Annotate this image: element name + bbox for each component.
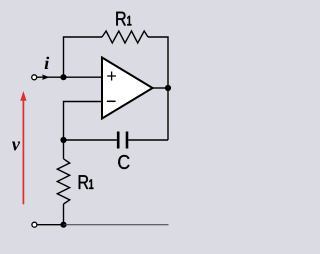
wire: resistor to bottom node bbox=[63, 204, 65, 225]
wire: inverting input from node B bbox=[64, 102, 103, 141]
label R1 (top resistor) bbox=[116, 12, 126, 26]
current arrow head bbox=[42, 75, 50, 80]
op-amp + symbol bbox=[107, 72, 116, 81]
resistor R1 (top, horizontal zigzag) bbox=[102, 31, 148, 43]
wire: feedback loop right side down to capacitor level bbox=[148, 37, 168, 140]
wire: capacitor to right vertical bbox=[128, 139, 168, 141]
node A junction dot bbox=[60, 74, 66, 80]
wire: op-amp output bbox=[153, 87, 169, 89]
wire: input wire to op-amp + bbox=[37, 76, 102, 78]
label R1 (vertical resistor) bbox=[79, 175, 89, 189]
label v bbox=[12, 142, 20, 151]
op-amp - symbol bbox=[107, 100, 116, 102]
label i bbox=[45, 57, 50, 69]
voltage arrow v (red) bbox=[22, 99, 24, 204]
label C bbox=[118, 155, 129, 169]
wire: node B to capacitor bbox=[64, 139, 117, 141]
input terminal (open circle) bbox=[32, 75, 37, 80]
bottom junction dot bbox=[60, 222, 66, 228]
capacitor C plates bbox=[118, 132, 127, 149]
wire: bottom rail bbox=[64, 224, 169, 226]
resistor R1 (vertical zigzag) bbox=[57, 159, 69, 204]
node B junction dot bbox=[60, 137, 66, 143]
wire: node B down to resistor R1 bbox=[63, 140, 65, 159]
op-amp U1 triangle bbox=[102, 58, 153, 119]
bottom terminal (open circle) bbox=[32, 222, 37, 227]
output junction dot bbox=[165, 85, 171, 91]
wire: bottom terminal to node bbox=[37, 224, 64, 226]
wire: feedback loop left vertical (node A up to resistor) bbox=[64, 37, 103, 77]
